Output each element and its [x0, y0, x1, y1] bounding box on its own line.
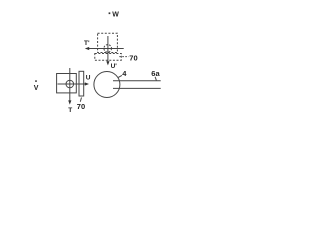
leader to label 70 (front view part) [80, 98, 81, 102]
svg-text:6a: 6a [151, 69, 160, 78]
solid pivot circle [66, 80, 74, 88]
arrowhead T [68, 100, 71, 104]
arrowhead U' [106, 61, 109, 65]
wire shaft 6a upper line [113, 80, 161, 82]
dashed flange rect (top view, part 70 phantom) [95, 54, 122, 61]
wire U axis line [58, 83, 86, 85]
svg-text:4: 4 [122, 69, 127, 78]
leader to label 70 (phantom part) [119, 56, 128, 58]
node W axis dot [109, 12, 111, 14]
ball 4 circle [94, 72, 120, 98]
leader to label 4 [118, 75, 122, 77]
wire shaft 6a lower line [113, 87, 161, 89]
arrowhead T' [85, 47, 89, 50]
solid flange rect (part 70 front view) [79, 71, 84, 96]
node V axis dot [35, 80, 37, 82]
svg-text:V: V [34, 85, 39, 92]
svg-text:70: 70 [129, 53, 137, 62]
wire T' axis line [89, 48, 124, 50]
wire T axis line [69, 68, 71, 101]
svg-text:W: W [112, 12, 119, 19]
arrowhead U [85, 82, 89, 85]
wire U' axis line [107, 36, 109, 62]
dashed pivot circle (phantom) [104, 45, 112, 53]
leader tick to label 6a [155, 77, 156, 81]
svg-text:T: T [68, 107, 72, 114]
svg-text:U': U' [111, 63, 118, 70]
svg-text:T': T' [84, 40, 90, 47]
svg-text:U: U [86, 75, 91, 82]
solid body rect (part 70 front view) [57, 74, 77, 93]
svg-text:70: 70 [77, 102, 85, 111]
dashed body rect (top view, part 70 phantom) [98, 33, 118, 52]
